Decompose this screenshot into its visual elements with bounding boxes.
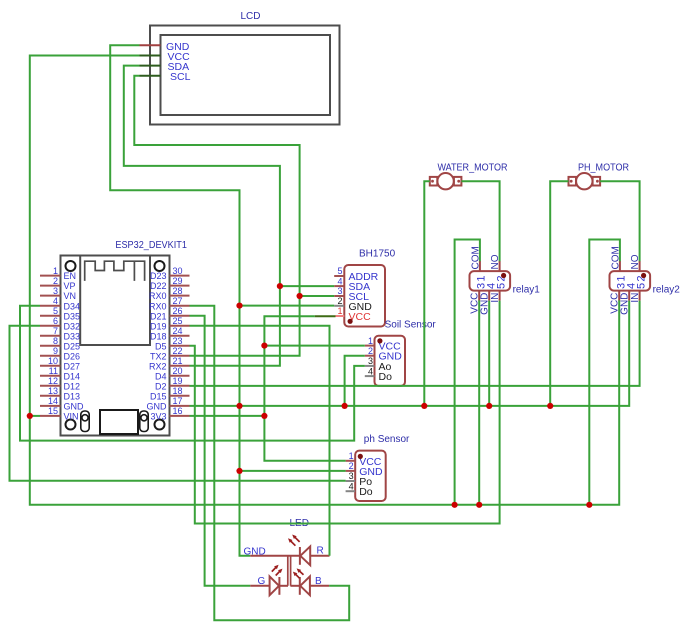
wire net 5V: branch to relay2 COM <box>589 240 620 505</box>
LED red diode emission arrows <box>288 535 300 546</box>
wire net 5V: branch to ESP VIN <box>30 415 40 417</box>
svg-text:relay2: relay2 <box>653 285 681 296</box>
svg-text:D33: D33 <box>64 331 81 341</box>
svg-text:TX2: TX2 <box>150 351 167 361</box>
relay2 polarity dot <box>641 273 646 278</box>
svg-text:13: 13 <box>48 386 58 396</box>
svg-text:PH_MOTOR: PH_MOTOR <box>578 163 629 174</box>
svg-text:ph Sensor: ph Sensor <box>364 434 410 445</box>
svg-text:VIN: VIN <box>64 412 79 422</box>
svg-text:29: 29 <box>173 276 183 286</box>
svg-text:D34: D34 <box>64 301 81 311</box>
svg-text:21: 21 <box>173 356 183 366</box>
LCD pin SDA stub <box>140 65 161 67</box>
LCD pin labels <box>166 41 191 83</box>
light sensor BH1750 <box>344 265 385 327</box>
relay module relay1 <box>470 271 511 291</box>
ESP32 pin 4 D34 <box>40 305 61 307</box>
wire net 5V: branch to relay1 COM <box>455 240 480 505</box>
ESP32 antenna meander <box>85 261 145 281</box>
svg-text:VP: VP <box>64 281 76 291</box>
svg-text:6: 6 <box>53 316 58 326</box>
ESP32 module ESP32_DEVKIT1 <box>61 256 170 436</box>
wire net SCL: branch to BH1750 SCL pin <box>300 295 335 297</box>
LED blue diode emission arrows <box>293 568 304 578</box>
svg-text:D15: D15 <box>150 391 167 401</box>
ESP32 pin 2 VP <box>40 285 61 287</box>
LCD module U-LCD <box>150 26 340 125</box>
wire net 3V3: branch to ph Sensor VCC <box>264 416 345 461</box>
wire net SDA: LCD SDA to BH1750 SDA and ESP RX2 <box>124 66 280 366</box>
relay1 pin NO stub <box>499 261 501 271</box>
wire net GND-LCD: branch to BH1750 GND <box>240 305 335 307</box>
Soil Sensor pin 3 Ao <box>365 365 375 367</box>
svg-text:RX0: RX0 <box>149 291 167 301</box>
svg-text:3: 3 <box>53 286 58 296</box>
wire net D32: ESP D32 to ph Sensor Po <box>10 326 346 481</box>
wire net D5: ESP D5 to relay1 IN <box>190 301 500 524</box>
ph Sensor pin 1 VCC <box>346 460 356 462</box>
svg-text:15: 15 <box>48 406 58 416</box>
ESP32 pin 29 D22 <box>170 285 190 287</box>
ESP32 pin 15 VIN <box>40 415 61 417</box>
wire net GND-LCD: LCD GND down and across to LED GND <box>110 45 250 556</box>
svg-text:BH1750: BH1750 <box>359 249 396 260</box>
ESP32 pin 14 GND <box>40 405 61 407</box>
ph Sensor pin 4 Do <box>346 490 356 492</box>
wire net D21: ESP D21 to LED G <box>190 316 251 586</box>
svg-text:3V3: 3V3 <box>150 412 166 422</box>
svg-text:5: 5 <box>53 306 58 316</box>
wire net D19: ESP D19 to LED R <box>190 326 330 556</box>
svg-text:12: 12 <box>48 376 58 386</box>
svg-text:25: 25 <box>173 316 183 326</box>
svg-text:Do: Do <box>359 486 373 498</box>
ESP32 pin 3 VN <box>40 295 61 297</box>
svg-text:D13: D13 <box>64 391 81 401</box>
svg-text:VN: VN <box>64 291 77 301</box>
svg-text:D26: D26 <box>64 351 81 361</box>
svg-text:20: 20 <box>173 366 183 376</box>
relay1 pin IN stub <box>499 291 501 301</box>
svg-text:GND: GND <box>147 402 168 412</box>
wire net SDA: branch to BH1750 SDA pin <box>280 285 334 287</box>
junction BH SCL <box>297 293 303 299</box>
ph Sensor module <box>355 451 386 501</box>
Soil Sensor pin 4 Do <box>365 375 375 377</box>
BH1750 pin 1 VCC <box>315 315 336 317</box>
svg-text:RX0: RX0 <box>149 301 167 311</box>
svg-text:4: 4 <box>349 481 354 491</box>
svg-text:WATER_MOTOR: WATER_MOTOR <box>438 163 508 174</box>
ph Sensor pin 2 GND <box>346 470 356 472</box>
BH1750 pin 4 SDA <box>334 285 344 287</box>
svg-text:SCL: SCL <box>170 71 191 83</box>
Soil Sensor module <box>375 336 406 386</box>
svg-text:D19: D19 <box>150 321 167 331</box>
wire net GND: branch relay1 GND <box>488 301 490 406</box>
svg-text:11: 11 <box>49 366 58 376</box>
motor WATER_MOTOR <box>430 173 462 189</box>
junction BH GND <box>236 303 242 309</box>
wire net D34: ESP D34 to Soil Sensor Ao <box>20 306 365 441</box>
ESP32 pin 20 D4 <box>170 375 190 377</box>
relay1 pin COM stub <box>479 261 481 271</box>
svg-text:2: 2 <box>53 276 58 286</box>
svg-text:LCD: LCD <box>241 11 261 22</box>
ESP32 pin 11 D14 <box>40 375 61 377</box>
ph Sensor polarity dot <box>358 454 363 459</box>
relay2 pin COM stub <box>619 261 621 271</box>
svg-text:9: 9 <box>53 346 58 356</box>
svg-text:1: 1 <box>337 306 342 316</box>
junction soil VCC <box>261 343 267 349</box>
svg-text:D18: D18 <box>150 331 167 341</box>
LED green diode emission arrows <box>272 565 283 576</box>
svg-text:D2: D2 <box>155 381 167 391</box>
LCD pin SCL stub <box>140 75 161 77</box>
svg-text:4: 4 <box>368 366 373 376</box>
junction relay2 COM 5V <box>586 502 592 508</box>
motor PH_MOTOR <box>569 173 601 189</box>
junction water motor GND <box>421 403 427 409</box>
svg-text:D25: D25 <box>64 341 81 351</box>
ESP32 pin 9 D26 <box>40 355 61 357</box>
wire net GND: branch WATER_MOTOR negative <box>424 181 430 406</box>
BH1750 pin 5 ADDR <box>334 275 344 277</box>
svg-text:2: 2 <box>368 346 373 356</box>
ESP32 pin 22 TX2 <box>170 355 190 357</box>
svg-text:5: 5 <box>337 266 342 276</box>
svg-text:7: 7 <box>53 326 58 336</box>
junction relay1 COM 5V <box>452 502 458 508</box>
svg-text:GND: GND <box>64 402 85 412</box>
svg-text:ESP32_DEVKIT1: ESP32_DEVKIT1 <box>115 240 187 251</box>
ESP32 pin 25 D19 <box>170 325 190 327</box>
ESP32 pin 1 EN <box>40 275 61 277</box>
ph Sensor pin 3 Po <box>346 480 356 482</box>
svg-text:1: 1 <box>368 336 373 346</box>
LED cathode drop wires <box>287 556 289 586</box>
PH_MOTOR terminal dots <box>570 180 573 183</box>
svg-text:D35: D35 <box>64 311 81 321</box>
ESP32 corner mounting holes <box>66 261 165 430</box>
junction relay1 GND <box>486 403 492 409</box>
LED red diode D-R <box>299 547 301 565</box>
svg-text:D14: D14 <box>64 371 81 381</box>
svg-text:D23: D23 <box>150 271 167 281</box>
wire net D2: ESP D2 to relay2 IN <box>190 301 640 386</box>
svg-text:18: 18 <box>173 386 183 396</box>
svg-text:4: 4 <box>337 276 342 286</box>
junction relay1 VCC 5V <box>476 502 482 508</box>
junction soil GND to GND row <box>342 403 348 409</box>
svg-text:10: 10 <box>48 356 58 366</box>
ESP32 pin 30 D23 <box>170 275 190 277</box>
wire net GND: branch PH_MOTOR negative <box>550 181 568 406</box>
LED common cathode rail <box>250 555 300 557</box>
svg-text:D32: D32 <box>64 321 81 331</box>
relay module relay2 <box>610 271 651 291</box>
svg-text:22: 22 <box>173 346 183 356</box>
wire net SCL: LCD SCL to BH1750 SCL and ESP TX2 <box>134 76 299 356</box>
ESP32 bottom slots and button pads <box>81 410 148 434</box>
relay1 polarity dot <box>501 273 506 278</box>
svg-text:D22: D22 <box>150 281 167 291</box>
svg-text:23: 23 <box>173 336 183 346</box>
ESP32 pin 27 RX0 <box>170 305 190 307</box>
svg-text:EN: EN <box>64 271 77 281</box>
LCD pin VCC stub <box>140 55 161 57</box>
junction ph GND <box>236 468 242 474</box>
svg-text:D4: D4 <box>155 371 167 381</box>
relay2 pin IN stub <box>639 291 641 301</box>
svg-text:D21: D21 <box>150 311 167 321</box>
svg-text:1: 1 <box>349 451 354 461</box>
wire net 3V3: ESP 3V3 to BH1750 VCC <box>190 316 315 416</box>
LCD pin GND stub <box>140 44 161 46</box>
svg-text:3: 3 <box>368 356 373 366</box>
ESP32 pin 10 D27 <box>40 365 61 367</box>
wire net GND: branch Soil Sensor GND <box>345 356 365 406</box>
svg-text:24: 24 <box>173 326 183 336</box>
wire net GND-LCD: branch to ph Sensor GND <box>240 470 346 472</box>
junction LCD GND net to ESP GND row <box>236 403 242 409</box>
svg-text:26: 26 <box>173 306 183 316</box>
ESP32 pin 8 D25 <box>40 345 61 347</box>
svg-text:30: 30 <box>173 266 183 276</box>
ESP32 pin 21 RX2 <box>170 365 190 367</box>
WATER_MOTOR terminal dots <box>431 180 434 183</box>
wire net RX0: ESP pin27 to LED B <box>190 306 350 621</box>
svg-text:19: 19 <box>173 376 183 386</box>
ESP32 pin 6 D32 <box>40 325 61 327</box>
svg-text:Do: Do <box>379 371 393 383</box>
junction BH SDA <box>277 283 283 289</box>
BH1750 pin 3 SCL <box>334 295 344 297</box>
BH1750 polarity dot <box>348 319 353 324</box>
svg-text:2: 2 <box>349 461 354 471</box>
junction VIN <box>27 413 33 419</box>
LED blue diode D-B <box>290 585 299 587</box>
Soil Sensor pin 2 GND <box>365 355 375 357</box>
svg-text:Soil Sensor: Soil Sensor <box>385 320 437 331</box>
ESP32 pin 5 D35 <box>40 315 61 317</box>
Soil Sensor polarity dot <box>377 338 382 343</box>
ESP32 pin 28 RX0 <box>170 295 190 297</box>
wire net GND: ESP GND row to relay2 GND <box>190 301 630 406</box>
relay2 pin VCC stub <box>618 291 620 301</box>
wire net 5V: LCD VCC to rail <box>30 56 619 505</box>
BH1750 pin 2 GND <box>334 305 344 307</box>
svg-text:3: 3 <box>349 471 354 481</box>
wire net NO1: WATER_MOTOR to relay1 NO <box>461 181 499 261</box>
ESP32 pin 18 D15 <box>170 395 190 397</box>
relay2 pin NO stub <box>639 261 641 271</box>
ESP32 pin 17 GND <box>170 405 190 407</box>
ESP32 pin 23 D5 <box>170 345 190 347</box>
svg-text:27: 27 <box>173 296 183 306</box>
wire net NO2: PH_MOTOR to relay2 NO <box>600 181 640 261</box>
svg-text:D27: D27 <box>64 361 81 371</box>
relay2 pin GND stub <box>628 291 630 301</box>
svg-text:D5: D5 <box>155 341 167 351</box>
svg-text:8: 8 <box>53 336 58 346</box>
svg-text:RX2: RX2 <box>149 361 167 371</box>
svg-text:17: 17 <box>173 396 183 406</box>
LED green diode D-G <box>250 585 269 587</box>
ESP32 pin 19 D2 <box>170 385 190 387</box>
ESP32 pin 13 D13 <box>40 395 61 397</box>
svg-text:2: 2 <box>337 296 342 306</box>
ESP32 pin 26 D21 <box>170 315 190 317</box>
svg-text:1: 1 <box>53 266 58 276</box>
wire net 3V3: branch to Soil Sensor VCC <box>264 345 364 347</box>
relay1 pin GND stub <box>488 291 490 301</box>
svg-text:14: 14 <box>48 396 58 406</box>
svg-text:4: 4 <box>53 296 58 306</box>
ESP32 pin 16 3V3 <box>170 415 190 417</box>
ESP32 pin 7 D33 <box>40 335 61 337</box>
relay1 pin VCC stub <box>478 291 480 301</box>
junction 3V3 row <box>261 413 267 419</box>
wire net 5V: branch to relay1 VCC <box>478 300 480 504</box>
ESP32 pin 12 D12 <box>40 385 61 387</box>
svg-text:28: 28 <box>173 286 183 296</box>
svg-text:relay1: relay1 <box>513 285 541 296</box>
junction ph motor GND <box>547 403 553 409</box>
ESP32 pin 24 D18 <box>170 335 190 337</box>
svg-text:3: 3 <box>337 286 342 296</box>
svg-text:16: 16 <box>173 406 183 416</box>
Soil Sensor pin 1 VCC <box>365 345 375 347</box>
svg-text:D12: D12 <box>64 381 81 391</box>
